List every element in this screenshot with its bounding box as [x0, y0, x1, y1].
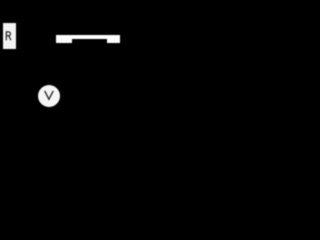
voltmeter V (circle symbol) — [38, 85, 60, 107]
wire (thick left segment of top net) — [56, 35, 72, 43]
wire (thin middle segment of top net) — [72, 35, 108, 39]
resistor R1 label "R" — [0, 0, 120, 120]
resistor R1 (box symbol) — [3, 23, 16, 50]
wire (thick right segment of top net, touches right edge) — [107, 35, 120, 43]
voltmeter V label "V" — [0, 0, 120, 120]
